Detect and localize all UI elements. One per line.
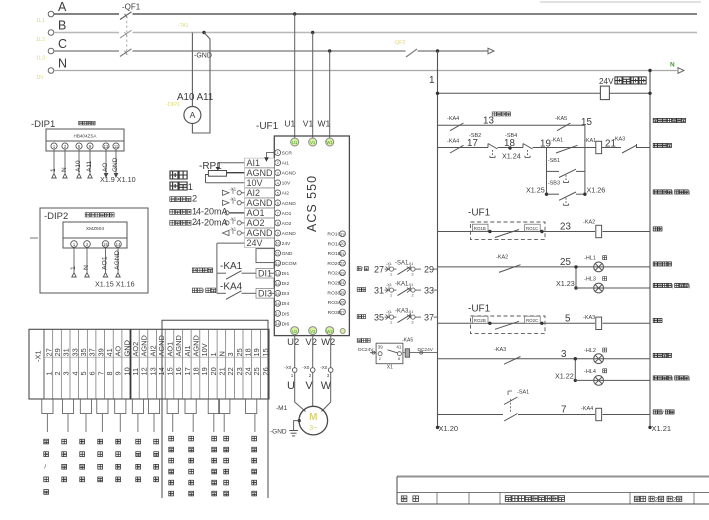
VFD pin 18 DI6 bbox=[275, 321, 290, 328]
svg-text:A10 A11: A10 A11 bbox=[177, 92, 213, 103]
svg-text:-X1: -X1 bbox=[408, 310, 414, 314]
coil KA4 bbox=[581, 406, 602, 421]
svg-text:2: 2 bbox=[379, 357, 381, 361]
pushbutton SB2 bbox=[488, 144, 498, 158]
svg-text:1: 1 bbox=[390, 294, 392, 298]
VFD output pin U2 bbox=[287, 327, 299, 348]
svg-text:W1: W1 bbox=[327, 140, 334, 145]
label X1.9 X1.10 bbox=[100, 175, 136, 184]
label -UF1 r23 bbox=[468, 208, 491, 219]
contact KA5 r1 bbox=[557, 123, 571, 131]
node C drop bbox=[328, 49, 331, 52]
svg-text:DCOM: DCOM bbox=[282, 261, 297, 267]
relay KA5 remote start bbox=[357, 338, 437, 371]
wire 10V bbox=[206, 182, 275, 184]
contact KA1 seal bbox=[556, 145, 578, 153]
svg-text:DI4: DI4 bbox=[282, 301, 290, 307]
node B drop bbox=[311, 31, 314, 34]
svg-text:16: 16 bbox=[276, 302, 280, 306]
svg-text:AO1: AO1 bbox=[247, 208, 265, 218]
svg-text:19: 19 bbox=[341, 232, 345, 236]
title block frame bbox=[397, 477, 709, 505]
DIP1 pin 9 wire A11 bbox=[86, 143, 93, 178]
lamp HL3 branch bbox=[576, 277, 650, 293]
contact KA2 r25 bbox=[499, 265, 521, 273]
svg-text:W2: W2 bbox=[327, 329, 334, 334]
contact KA3 nc r2 bbox=[622, 144, 637, 153]
svg-text:31: 31 bbox=[62, 348, 71, 356]
label -RP1 bbox=[199, 161, 222, 172]
VFD pin 14 DI2 bbox=[275, 280, 290, 287]
tag DI1 bbox=[256, 268, 274, 278]
field label 频率调节 bbox=[154, 439, 159, 482]
label -DIP1 bbox=[31, 119, 55, 130]
svg-text:25: 25 bbox=[560, 257, 571, 268]
svg-text:X1.20: X1.20 bbox=[439, 424, 459, 433]
svg-text:29: 29 bbox=[424, 265, 434, 275]
field label 运行指示 bbox=[62, 439, 67, 482]
terminal X0:1 bbox=[284, 335, 297, 378]
DIP1 pin 6 wire A10 bbox=[75, 143, 82, 178]
svg-text:-TA1: -TA1 bbox=[178, 23, 189, 29]
breaker QF1 pole C bbox=[120, 49, 132, 57]
svg-text:5: 5 bbox=[565, 314, 571, 325]
label -SB4 bbox=[505, 133, 517, 139]
label X1.26 bbox=[587, 186, 606, 195]
svg-text:23: 23 bbox=[341, 271, 345, 275]
DIP2 pin 14 wire AGND bbox=[114, 241, 121, 277]
VFD input pin U1 bbox=[284, 119, 298, 147]
connector X1 AGND6 bbox=[223, 196, 242, 205]
svg-text:11: 11 bbox=[276, 252, 280, 256]
svg-text:GND: GND bbox=[282, 251, 293, 257]
DIP1 pin 13 wire AO bbox=[102, 143, 109, 178]
svg-text:X1.9 X1.10: X1.9 X1.10 bbox=[100, 175, 136, 184]
label -KA4 r1 bbox=[447, 116, 459, 122]
motor ground node bbox=[298, 419, 301, 422]
node X1.24 bbox=[502, 146, 521, 160]
VFD pin 20 RO1A bbox=[328, 241, 346, 248]
svg-text:N: N bbox=[670, 62, 675, 69]
svg-text:39: 39 bbox=[378, 344, 383, 349]
svg-text:N: N bbox=[58, 57, 67, 71]
svg-text:AGND: AGND bbox=[157, 335, 166, 356]
svg-text:16: 16 bbox=[174, 367, 183, 375]
svg-text:8: 8 bbox=[105, 371, 114, 375]
VFD pin 27 RO3B bbox=[328, 309, 346, 316]
VFD pin 13 DI1 bbox=[275, 270, 290, 277]
lamp HL1 bbox=[584, 256, 607, 272]
tag AI2 bbox=[245, 188, 275, 198]
label 17 bbox=[467, 138, 478, 149]
svg-text:-X0: -X0 bbox=[302, 365, 310, 370]
svg-text:15: 15 bbox=[276, 292, 280, 296]
yellow mark 1L1 bbox=[36, 18, 45, 24]
field label 水泵/远程 bbox=[44, 439, 49, 494]
label -DIP2 bbox=[44, 211, 68, 222]
svg-text:20: 20 bbox=[341, 242, 345, 246]
svg-text:15: 15 bbox=[103, 242, 108, 247]
node on phase B for CT bbox=[202, 31, 205, 34]
VFD pin 6 AGND bbox=[275, 200, 296, 207]
field label 频率显示 bbox=[136, 439, 141, 482]
svg-text:X1.26: X1.26 bbox=[587, 186, 606, 195]
svg-text:U: U bbox=[287, 380, 295, 392]
svg-text:7: 7 bbox=[277, 212, 279, 216]
coil KA2 bbox=[583, 220, 602, 238]
svg-text:XMZ604: XMZ604 bbox=[86, 226, 104, 232]
label X1.20 bbox=[439, 424, 459, 433]
svg-text:17: 17 bbox=[276, 312, 280, 316]
svg-text:-M1: -M1 bbox=[276, 405, 288, 412]
label VFD start bbox=[192, 268, 212, 273]
wire C to W1 bbox=[329, 51, 331, 139]
tag AO2 bbox=[245, 218, 275, 228]
svg-text:-QF2: -QF2 bbox=[393, 40, 406, 46]
svg-text:-DIP1: -DIP1 bbox=[166, 102, 180, 108]
tag RO2C bbox=[525, 316, 544, 325]
svg-text:RO1C: RO1C bbox=[526, 226, 538, 231]
label 7 bbox=[561, 405, 566, 416]
label vfd start bbox=[653, 143, 671, 147]
svg-text:27: 27 bbox=[44, 348, 53, 356]
label yellow -TA1 bbox=[178, 23, 189, 29]
svg-text:-KA3: -KA3 bbox=[583, 315, 595, 321]
svg-text:24V: 24V bbox=[247, 238, 263, 248]
svg-text:3~: 3~ bbox=[309, 423, 318, 432]
label local remote bbox=[653, 410, 674, 416]
jumper GND-DCOM bbox=[256, 249, 274, 263]
svg-text:RO1B: RO1B bbox=[328, 251, 341, 257]
svg-text:X1.25: X1.25 bbox=[526, 186, 545, 195]
svg-text:U1: U1 bbox=[292, 140, 298, 145]
VFD pin 19 RO1C bbox=[327, 231, 345, 238]
label 25 bbox=[560, 257, 571, 268]
svg-text:DC24V: DC24V bbox=[418, 347, 434, 353]
wire SCR shield bbox=[264, 153, 274, 162]
label W bbox=[321, 380, 332, 392]
svg-text:10V: 10V bbox=[247, 178, 263, 188]
svg-text:HB404ZSA: HB404ZSA bbox=[74, 134, 98, 139]
svg-text:RO3C: RO3C bbox=[327, 290, 341, 296]
rung wire 23 bbox=[438, 231, 651, 233]
svg-text:SCR: SCR bbox=[282, 151, 293, 157]
svg-text:-KA5: -KA5 bbox=[555, 116, 567, 122]
label -SB3 bbox=[548, 181, 560, 187]
wire B to V1 bbox=[312, 33, 314, 139]
connector AO1 bbox=[225, 211, 229, 215]
VFD pin 22 RO2C bbox=[327, 260, 345, 267]
wire AO2 bbox=[241, 222, 274, 224]
phase C entry circle and label bbox=[48, 37, 67, 54]
wire A to U1 bbox=[294, 14, 296, 139]
terminal strip X1 body bbox=[29, 329, 269, 399]
rung wire 13-15 bbox=[438, 124, 585, 126]
tag RO2B bbox=[473, 316, 492, 325]
label freq display 2 bbox=[170, 217, 228, 227]
label -X1 rotated bbox=[34, 350, 43, 362]
svg-text:17: 17 bbox=[467, 138, 478, 149]
svg-text:5: 5 bbox=[277, 191, 279, 195]
label -UF1 r5 bbox=[468, 304, 491, 315]
svg-text:4-20mA: 4-20mA bbox=[196, 217, 228, 227]
svg-text:25: 25 bbox=[252, 367, 261, 375]
svg-text:-KA4: -KA4 bbox=[220, 281, 243, 292]
phase A entry circle and label bbox=[48, 0, 67, 17]
label fault ind remote bbox=[653, 376, 690, 382]
coil KA1 bbox=[584, 138, 602, 154]
wire AI2 bbox=[241, 192, 274, 194]
feedback box UF1 run bbox=[471, 222, 546, 240]
VFD pin 25 RO3C bbox=[327, 290, 345, 297]
terminal X0:3 bbox=[320, 335, 333, 378]
svg-text:-HL1: -HL1 bbox=[584, 256, 596, 262]
svg-text:AGND: AGND bbox=[282, 201, 297, 207]
label speed-set 1 bbox=[170, 171, 193, 192]
remote label 远程频率显示 bbox=[169, 436, 174, 496]
svg-text:V2: V2 bbox=[305, 337, 317, 348]
svg-text:31: 31 bbox=[374, 286, 384, 296]
svg-text:5: 5 bbox=[79, 371, 88, 375]
drive UF1 ACS550 body bbox=[274, 136, 349, 336]
svg-text:A: A bbox=[190, 110, 196, 120]
svg-text:3: 3 bbox=[327, 373, 330, 378]
VFD pin 21 RO1B bbox=[328, 250, 346, 257]
svg-text:19: 19 bbox=[200, 367, 209, 375]
wire neutral N bbox=[54, 70, 677, 72]
label run bbox=[653, 227, 662, 231]
svg-text:19: 19 bbox=[252, 348, 261, 356]
svg-text:10: 10 bbox=[122, 367, 131, 375]
VFD output pin W2 bbox=[321, 327, 335, 348]
svg-text:1L2: 1L2 bbox=[36, 37, 45, 43]
svg-text:AGND: AGND bbox=[247, 168, 274, 178]
motor M1 bbox=[299, 406, 328, 435]
svg-text:27: 27 bbox=[341, 311, 345, 315]
svg-text:26: 26 bbox=[341, 301, 345, 305]
svg-text:1: 1 bbox=[277, 151, 279, 155]
node A drop bbox=[293, 12, 296, 15]
label DIP1 title bbox=[79, 121, 95, 125]
DIP2 pin 15 wire AO1 bbox=[102, 241, 109, 277]
svg-text:N: N bbox=[61, 167, 68, 172]
wire phase C to control bbox=[418, 49, 489, 52]
riser X1.23 bbox=[574, 265, 577, 290]
yellow mark 1L2 bbox=[36, 37, 45, 43]
VFD pin 23 RO2A bbox=[328, 270, 346, 277]
svg-text:U2: U2 bbox=[287, 337, 299, 348]
svg-text:RO1A: RO1A bbox=[328, 242, 342, 248]
svg-text:4: 4 bbox=[277, 181, 279, 185]
branch SB1 bbox=[547, 170, 585, 172]
VFD input pin W1 bbox=[317, 119, 333, 147]
svg-text:6: 6 bbox=[88, 371, 97, 375]
phase B entry circle and label bbox=[48, 19, 66, 36]
svg-text:AGND: AGND bbox=[140, 335, 149, 356]
pushbutton SB1 bbox=[559, 169, 576, 182]
label A10 A11 bbox=[177, 92, 213, 103]
svg-text:GND: GND bbox=[122, 340, 131, 356]
label -SA1 bbox=[508, 390, 529, 396]
connector X1 AI2 bbox=[223, 186, 242, 195]
svg-text:-HL2: -HL2 bbox=[584, 348, 596, 354]
shield wire bbox=[267, 163, 269, 243]
svg-text:X1.23: X1.23 bbox=[556, 279, 575, 288]
wire U to motor bbox=[295, 372, 306, 411]
VFD pin 2 AI1 bbox=[275, 160, 289, 167]
wire 24V PSU line bbox=[436, 92, 652, 95]
fuse QF2 on phase C bbox=[406, 49, 417, 57]
riser X1.22 bbox=[574, 357, 577, 382]
svg-text:27: 27 bbox=[374, 265, 384, 275]
svg-text:AI1: AI1 bbox=[247, 158, 261, 168]
svg-text:1L1: 1L1 bbox=[36, 18, 45, 24]
label -KA3 r2 bbox=[613, 137, 625, 143]
label 15 bbox=[581, 117, 592, 128]
svg-text:2: 2 bbox=[412, 321, 414, 325]
svg-text:-UF1: -UF1 bbox=[468, 304, 491, 315]
svg-text:-KA1: -KA1 bbox=[584, 138, 596, 144]
label -M1 bbox=[276, 405, 288, 412]
svg-text:10: 10 bbox=[276, 242, 280, 246]
tag 10V bbox=[245, 178, 275, 188]
wire CT loop bbox=[192, 33, 210, 134]
ladder left rail wire 1 bbox=[429, 51, 439, 429]
svg-text:DI6: DI6 bbox=[282, 321, 290, 327]
tag AGND pin3 bbox=[245, 168, 275, 178]
label -KA1 seal bbox=[551, 138, 563, 144]
svg-text:9: 9 bbox=[277, 232, 279, 236]
svg-text:AO: AO bbox=[102, 163, 109, 172]
svg-text:A11: A11 bbox=[86, 161, 93, 172]
svg-text:M: M bbox=[309, 412, 317, 423]
svg-text:1: 1 bbox=[70, 266, 77, 270]
DIP2 pin 1 wire 1 bbox=[70, 241, 77, 277]
svg-text:23: 23 bbox=[235, 367, 244, 375]
svg-text:-DIP1: -DIP1 bbox=[31, 119, 55, 130]
svg-text:3: 3 bbox=[277, 171, 279, 175]
label -UF1 bbox=[256, 121, 279, 132]
svg-text:DI1: DI1 bbox=[282, 271, 290, 277]
label 19 bbox=[540, 139, 551, 150]
label fault ind bbox=[653, 353, 671, 357]
rung wire 25 bbox=[438, 266, 651, 268]
svg-text:-X1: -X1 bbox=[386, 283, 392, 287]
lamp HL4 branch bbox=[575, 369, 650, 386]
svg-text:W: W bbox=[321, 380, 332, 392]
wire 24V bbox=[217, 242, 274, 244]
contact KA4 r1 bbox=[450, 123, 464, 131]
svg-text:12: 12 bbox=[140, 367, 149, 375]
label 13 bbox=[483, 116, 494, 127]
VFD pin 10 24V bbox=[275, 240, 291, 247]
VFD pin 24 RO2B bbox=[328, 280, 346, 287]
svg-text:-SB4: -SB4 bbox=[505, 133, 517, 139]
label X1.22 bbox=[555, 372, 574, 381]
svg-text:-KA1: -KA1 bbox=[220, 261, 243, 272]
label -SB1 bbox=[548, 158, 560, 164]
connector X1 AO2 bbox=[225, 216, 241, 225]
svg-text:RO1B: RO1B bbox=[474, 226, 486, 231]
VFD pin 3 AGND bbox=[275, 170, 296, 177]
svg-text:22: 22 bbox=[341, 262, 345, 266]
svg-text:-UF1: -UF1 bbox=[256, 121, 279, 132]
label X1.23 bbox=[556, 279, 575, 288]
svg-text:U1: U1 bbox=[284, 119, 295, 129]
label X1.21 bbox=[652, 424, 672, 433]
svg-text:2: 2 bbox=[309, 373, 312, 378]
label -QF1 bbox=[122, 3, 141, 12]
svg-text:-GND: -GND bbox=[194, 53, 212, 60]
svg-text:14: 14 bbox=[116, 242, 121, 247]
svg-text:1: 1 bbox=[188, 182, 193, 192]
svg-text:-X0: -X0 bbox=[284, 365, 292, 370]
svg-text:24V: 24V bbox=[599, 77, 614, 86]
svg-text:AGND: AGND bbox=[192, 335, 201, 356]
remote label 远程启动停止 bbox=[212, 436, 217, 496]
wire phase A bbox=[54, 13, 697, 15]
label vfd start remote bbox=[653, 190, 690, 196]
VFD pin 12 DCOM bbox=[275, 260, 297, 267]
tag AO1 bbox=[245, 208, 275, 218]
rung wire 3 bbox=[438, 358, 651, 360]
svg-text:37: 37 bbox=[424, 313, 434, 323]
connector X1 AGND9 bbox=[223, 227, 242, 236]
svg-text:-HL3: -HL3 bbox=[584, 277, 596, 283]
svg-text:14: 14 bbox=[276, 282, 280, 286]
DI field row 27--SA1-29 bbox=[357, 261, 437, 277]
svg-text:25: 25 bbox=[341, 291, 345, 295]
svg-text:AI1: AI1 bbox=[282, 161, 290, 167]
contact KA4 to DI3 bbox=[217, 291, 256, 300]
tag RO1C bbox=[525, 224, 544, 233]
svg-text:10V: 10V bbox=[200, 343, 209, 356]
svg-text:21: 21 bbox=[341, 252, 345, 256]
contact KA4 r2 bbox=[450, 145, 464, 153]
field label 电流显示 bbox=[116, 439, 121, 482]
svg-text:1: 1 bbox=[390, 321, 392, 325]
svg-text:35: 35 bbox=[374, 313, 384, 323]
svg-text:AGND: AGND bbox=[282, 171, 297, 177]
VFD pin 4 10V bbox=[275, 180, 291, 187]
ammeter PA1 bbox=[184, 107, 201, 124]
svg-text:AI2: AI2 bbox=[282, 191, 290, 197]
VFD input pin V1 bbox=[303, 119, 317, 147]
tag AGND pin9 bbox=[245, 228, 275, 238]
label host remote start bbox=[653, 118, 685, 122]
svg-text:19: 19 bbox=[540, 139, 551, 150]
coil KA3 bbox=[583, 315, 602, 330]
label -GND bbox=[270, 429, 287, 436]
svg-text:-KA4: -KA4 bbox=[447, 116, 459, 122]
svg-text:-X1: -X1 bbox=[386, 310, 392, 314]
terminal X0:2 bbox=[302, 335, 315, 378]
yellow mark 1L3 bbox=[36, 56, 45, 62]
svg-text:X1.15 X1.16: X1.15 X1.16 bbox=[95, 280, 135, 289]
svg-text:RO2B: RO2B bbox=[328, 281, 341, 287]
label 18 bbox=[504, 138, 515, 149]
label DIP2 title bbox=[85, 213, 114, 217]
svg-text:18: 18 bbox=[276, 322, 280, 326]
feedback box UF1 fault bbox=[471, 316, 546, 334]
label -KA5 r1 bbox=[555, 116, 567, 122]
continuation arrow phase C bbox=[488, 48, 494, 54]
DIP2 pin 2 wire N bbox=[83, 241, 90, 277]
svg-text:B: B bbox=[58, 19, 66, 33]
VFD pin 15 DI3 bbox=[275, 290, 290, 297]
label 23 bbox=[560, 222, 571, 233]
label U bbox=[287, 380, 295, 392]
